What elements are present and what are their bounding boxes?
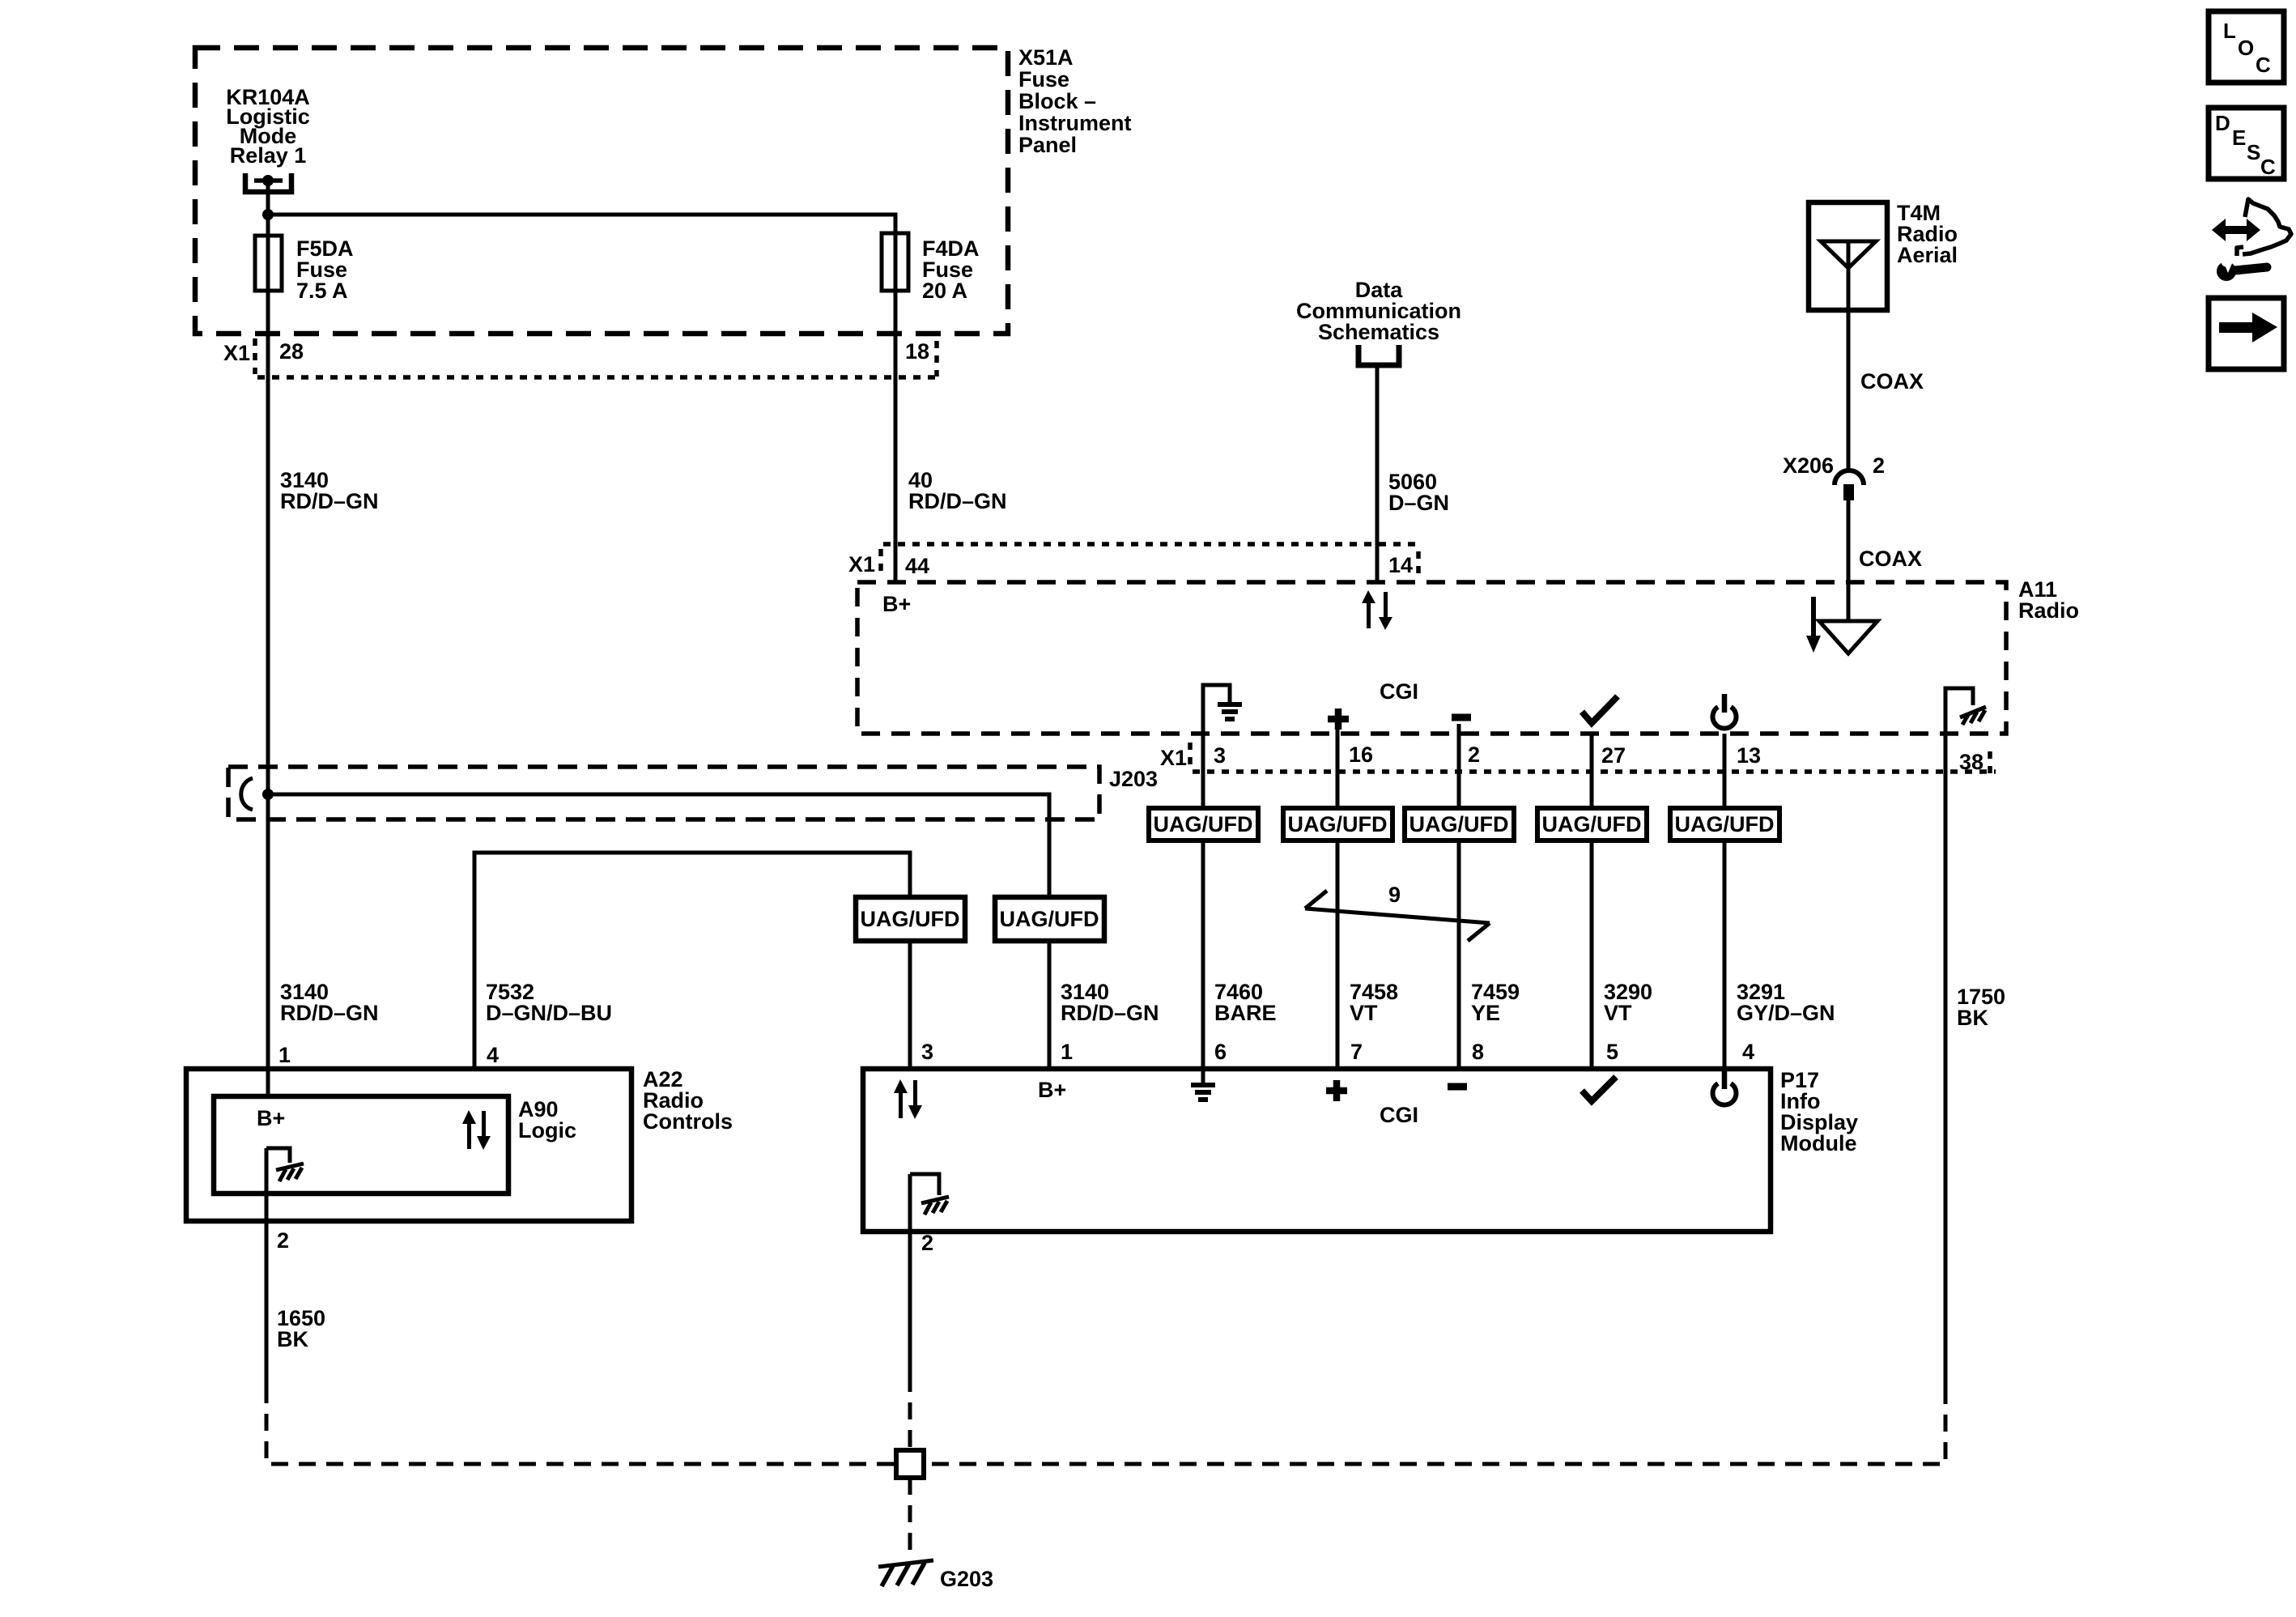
- wire branch to fuse F4DA: [268, 215, 895, 235]
- pin 1 of P17: [1061, 1040, 1073, 1064]
- svg-text:COAX: COAX: [1859, 547, 1922, 571]
- svg-text:C: C: [2260, 155, 2276, 179]
- chassis ground at radio pin 38: [1945, 688, 1973, 705]
- antenna T4M box: [1809, 202, 1887, 310]
- svg-text:RD/D–GN: RD/D–GN: [1061, 1001, 1159, 1025]
- svg-text:D–GN/D–BU: D–GN/D–BU: [486, 1001, 612, 1025]
- connector X206 symbol: [1835, 470, 1864, 485]
- svg-text:S: S: [2247, 140, 2260, 164]
- fuse block X51A label: [1018, 45, 1132, 157]
- svg-text:COAX: COAX: [1860, 369, 1924, 394]
- svg-text:2: 2: [921, 1231, 933, 1255]
- wire label 7459 YE: [1471, 980, 1520, 1025]
- svg-text:UAG/UFD: UAG/UFD: [1000, 907, 1099, 931]
- CGI label in radio: [1380, 679, 1418, 704]
- svg-text:1: 1: [278, 1043, 291, 1067]
- svg-text:RD/D–GN: RD/D–GN: [908, 489, 1007, 513]
- dashed wire P17 pin2 to splice: [908, 1375, 912, 1450]
- svg-text:CGI: CGI: [1380, 1103, 1418, 1127]
- connector X1 strip of radio bottom (pins 3,16,2,27,13,38): [1193, 769, 1996, 774]
- wire 5060: [1375, 368, 1380, 582]
- antenna triangle symbol: [1821, 241, 1876, 268]
- svg-text:X51A: X51A: [1018, 45, 1074, 70]
- wire label 7458 VT: [1350, 980, 1398, 1025]
- svg-text:UAG/UFD: UAG/UFD: [861, 907, 960, 931]
- svg-text:27: 27: [1601, 743, 1626, 768]
- splice symbol in J203: [241, 778, 253, 810]
- svg-text:2: 2: [1873, 453, 1885, 478]
- icon DESC box: [2209, 108, 2284, 179]
- wire label 3140 RD/D-GN (upper): [280, 468, 379, 513]
- svg-text:Controls: Controls: [643, 1109, 733, 1134]
- svg-text:8: 8: [1472, 1040, 1484, 1064]
- svg-text:Radio: Radio: [2018, 598, 2079, 623]
- svg-text:6: 6: [1214, 1040, 1227, 1064]
- pin 7 of P17: [1350, 1040, 1363, 1064]
- fuse F5DA: [255, 236, 282, 291]
- data communication schematics label: [1296, 278, 1461, 344]
- wire 3140 fuse F5DA to A22 pin 1: [266, 236, 270, 1099]
- svg-text:Relay 1: Relay 1: [230, 143, 307, 168]
- svg-text:5: 5: [1606, 1040, 1618, 1064]
- pin 3 of P17: [921, 1040, 933, 1064]
- svg-text:RD/D–GN: RD/D–GN: [280, 1001, 379, 1025]
- antenna receive symbol in radio: [1819, 621, 1877, 653]
- svg-text:O: O: [2238, 36, 2254, 60]
- wire COAX lower: [1847, 500, 1851, 621]
- svg-text:20 A: 20 A: [922, 279, 967, 303]
- wires UAG boxes down to P17: [1201, 840, 1205, 1069]
- pin 4 of P17: [1742, 1040, 1754, 1064]
- svg-text:2: 2: [277, 1228, 289, 1253]
- svg-text:RD/D–GN: RD/D–GN: [280, 489, 379, 513]
- wire label 3291 GY/D-GN: [1737, 980, 1835, 1025]
- svg-text:7: 7: [1350, 1040, 1363, 1064]
- svg-text:E: E: [2232, 126, 2246, 150]
- svg-text:38: 38: [1959, 750, 1983, 774]
- icon wrench: [2234, 267, 2267, 270]
- svg-text:B+: B+: [257, 1106, 285, 1130]
- svg-text:4: 4: [487, 1043, 499, 1067]
- svg-text:14: 14: [1388, 553, 1413, 577]
- ground G203 symbol: [878, 1560, 933, 1567]
- node B+ label in radio: [882, 592, 911, 616]
- data arrows in P17: [894, 1079, 922, 1119]
- minus symbol in P17 pin 8: [1448, 1083, 1467, 1091]
- svg-text:VT: VT: [1350, 1001, 1378, 1025]
- svg-text:UAG/UFD: UAG/UFD: [1154, 812, 1253, 836]
- wire label 1750 BK: [1957, 985, 2005, 1030]
- icon arrow box: [2209, 298, 2284, 369]
- svg-text:CGI: CGI: [1380, 679, 1418, 704]
- dashed wire 1650 to splice: [266, 1386, 896, 1464]
- info display module P17 box: [863, 1069, 1771, 1232]
- off-page connector bracket: [1358, 345, 1399, 365]
- wire 40 fuse F4DA to radio pin 44: [894, 233, 898, 582]
- svg-text:X206: X206: [1783, 453, 1834, 478]
- wire 7460 radio pin3 to UAG: [1201, 685, 1205, 808]
- svg-text:C: C: [2256, 53, 2271, 77]
- data arrows under pin 14: [1362, 590, 1392, 630]
- wires UAG to P17 pins 3 and 1: [908, 941, 912, 1069]
- wire label 5060 D-GN: [1388, 470, 1449, 515]
- dashed wire 1750 to splice: [924, 1387, 1945, 1464]
- inline connector UAG/UFD (7460): [1149, 808, 1258, 840]
- inline connector UAG/UFD (7532): [856, 897, 965, 941]
- wire 7459 radio pin2 to UAG: [1457, 724, 1461, 808]
- wire COAX upper: [1847, 310, 1851, 469]
- svg-text:VT: VT: [1604, 1001, 1632, 1025]
- node junction dot: [262, 209, 274, 220]
- check symbol at radio pin 27: [1582, 696, 1618, 723]
- inline connector UAG/UFD (7458): [1283, 808, 1392, 840]
- svg-text:UAG/UFD: UAG/UFD: [1675, 812, 1775, 836]
- earth ground at radio pin 3: [1203, 685, 1230, 703]
- logic module A90 box: [214, 1096, 508, 1194]
- inline connector UAG/UFD (3140): [995, 897, 1104, 941]
- wire 3290 radio pin27 to UAG: [1590, 734, 1594, 808]
- pin 2 of P17: [921, 1231, 933, 1255]
- radio controls A22 box: [186, 1069, 631, 1221]
- wire label 3290 VT: [1604, 980, 1652, 1025]
- pin 4 of A22: [487, 1043, 499, 1067]
- wire label 40 RD/D-GN: [908, 468, 1007, 513]
- node junction dot J203: [262, 789, 274, 800]
- twisted pair arrow 9: [1305, 908, 1490, 923]
- pin 2 of A22: [277, 1228, 289, 1253]
- wire relay to fuse F5DA: [266, 181, 270, 237]
- plus symbol at radio pin 16: [1328, 709, 1349, 730]
- chassis ground in A90: [266, 1148, 290, 1163]
- svg-text:4: 4: [1742, 1040, 1754, 1064]
- check symbol in P17 pin 5: [1582, 1077, 1616, 1101]
- svg-text:X1: X1: [1160, 746, 1187, 770]
- wire label 7460 BARE: [1214, 980, 1277, 1025]
- fuse F4DA: [882, 233, 908, 291]
- connector X1 strip of radio top (pins 44/14): [883, 542, 1418, 547]
- svg-text:44: 44: [905, 554, 929, 578]
- relay KR104A label: [226, 85, 310, 168]
- inline connector UAG/UFD (7459): [1405, 808, 1514, 840]
- wire 7532 A22 pin4 to P17 pin3: [474, 853, 910, 1069]
- svg-text:Instrument: Instrument: [1018, 111, 1132, 135]
- svg-text:UAG/UFD: UAG/UFD: [1409, 812, 1509, 836]
- chassis ground in P17: [910, 1174, 939, 1195]
- svg-text:X1: X1: [223, 341, 250, 365]
- node B+ label in A90: [257, 1106, 285, 1130]
- minus symbol at radio pin 2: [1452, 714, 1471, 721]
- splice pack J203 dashed box: [228, 767, 1099, 819]
- svg-text:Module: Module: [1780, 1131, 1857, 1155]
- power symbol in P17 pin 4: [1712, 1083, 1736, 1105]
- wire 3291 radio pin13 to UAG: [1723, 734, 1727, 808]
- svg-text:3: 3: [1214, 743, 1226, 768]
- wire J203 branch to P17 pin 1: [268, 794, 1049, 897]
- svg-text:UAG/UFD: UAG/UFD: [1542, 812, 1642, 836]
- svg-text:9: 9: [1388, 883, 1401, 907]
- node B+ label in P17: [1038, 1078, 1066, 1102]
- plus symbol in P17 pin 7: [1326, 1080, 1347, 1101]
- relay KR104A contact symbol: [245, 173, 291, 192]
- svg-text:Panel: Panel: [1018, 133, 1077, 157]
- radio A11 dashed box: [857, 582, 2006, 734]
- svg-text:28: 28: [279, 339, 304, 364]
- fuse block X51A dashed box: [195, 48, 1008, 334]
- svg-text:D: D: [2215, 111, 2230, 135]
- svg-text:Fuse: Fuse: [1018, 67, 1069, 91]
- pin 8 of P17: [1472, 1040, 1484, 1064]
- svg-text:YE: YE: [1471, 1001, 1500, 1025]
- svg-text:J203: J203: [1109, 767, 1158, 791]
- svg-text:D–GN: D–GN: [1388, 491, 1449, 515]
- data arrows in A90: [462, 1110, 491, 1150]
- wire label 3140 RD/D-GN (lower right): [1061, 980, 1159, 1025]
- wire label 1650 BK: [277, 1306, 325, 1351]
- svg-text:L: L: [2223, 19, 2236, 43]
- svg-text:2: 2: [1468, 743, 1480, 767]
- svg-text:3: 3: [921, 1040, 933, 1064]
- svg-text:Aerial: Aerial: [1897, 243, 1958, 267]
- svg-text:BARE: BARE: [1214, 1001, 1277, 1025]
- svg-text:16: 16: [1349, 743, 1373, 767]
- svg-text:13: 13: [1737, 743, 1761, 768]
- dashed wire splice to G203: [908, 1478, 912, 1556]
- inline connector UAG/UFD (3290): [1537, 808, 1647, 840]
- svg-text:7.5 A: 7.5 A: [296, 279, 348, 303]
- CGI label in P17: [1380, 1103, 1418, 1127]
- pin 6 of P17: [1214, 1040, 1227, 1064]
- svg-text:BK: BK: [277, 1327, 308, 1351]
- svg-text:Logic: Logic: [518, 1118, 576, 1143]
- wire label 3140 RD/D-GN (lower left): [280, 980, 379, 1025]
- svg-text:B+: B+: [882, 592, 911, 616]
- splice junction square: [896, 1450, 924, 1478]
- svg-text:B+: B+: [1038, 1078, 1066, 1102]
- svg-text:Schematics: Schematics: [1318, 320, 1439, 344]
- signal-in arrow: [1806, 597, 1821, 653]
- power symbol at radio pin 13: [1712, 707, 1736, 729]
- svg-text:BK: BK: [1957, 1006, 1988, 1030]
- svg-text:Block –: Block –: [1018, 89, 1096, 113]
- connector X1 strip of fuse block (pins 28/18): [257, 375, 937, 380]
- wire label 7532 D-GN/D-BU: [486, 980, 612, 1025]
- svg-text:18: 18: [905, 339, 929, 364]
- pin 1 of A22: [278, 1043, 291, 1067]
- wire P17 ground to pin 2: [908, 1174, 912, 1375]
- svg-text:G203: G203: [940, 1567, 993, 1591]
- earth ground in P17 pin 6: [1201, 1069, 1205, 1083]
- icon hand with double arrow: [2212, 219, 2260, 241]
- pin 5 of P17: [1606, 1040, 1618, 1064]
- wire 7458 radio pin16 to UAG: [1336, 728, 1340, 808]
- svg-text:GY/D–GN: GY/D–GN: [1737, 1001, 1835, 1025]
- svg-text:X1: X1: [848, 552, 875, 577]
- svg-text:UAG/UFD: UAG/UFD: [1288, 812, 1388, 836]
- svg-text:1: 1: [1061, 1040, 1073, 1064]
- wire A90 ground to A22 pin 2: [265, 1148, 269, 1386]
- inline connector UAG/UFD (3291): [1670, 808, 1779, 840]
- wire 1750 radio pin38 down: [1944, 688, 1948, 1387]
- icon LOC box: [2209, 11, 2284, 83]
